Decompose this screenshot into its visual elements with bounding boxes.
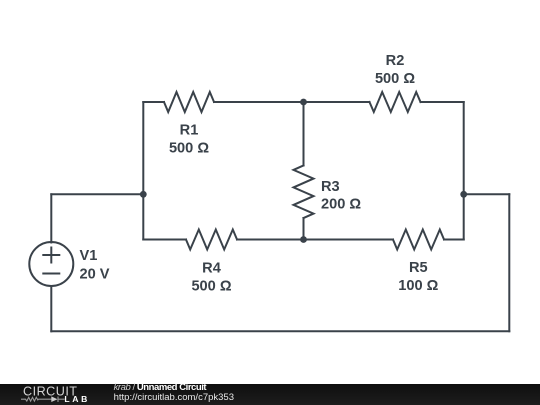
node B junction dot <box>300 99 307 106</box>
wire R1 to node B <box>214 101 304 103</box>
wire V1 bottom lead <box>50 286 52 331</box>
wire R3 bottom lead <box>303 218 305 240</box>
CircuitLab logo diode triangle <box>51 396 57 402</box>
wire R4 to node C <box>237 239 304 241</box>
wire right branch vertical <box>463 102 465 240</box>
svg-text:R1: R1 <box>180 123 199 139</box>
svg-text:500 Ω: 500 Ω <box>375 71 415 87</box>
wire top rail left (node A to R2) <box>143 101 164 103</box>
node D junction dot <box>460 191 467 198</box>
wire left branch vertical <box>142 102 144 240</box>
node C junction dot <box>300 236 307 243</box>
footer caption text <box>114 383 234 403</box>
svg-text:200 Ω: 200 Ω <box>321 197 361 213</box>
resistor R4 <box>186 230 237 250</box>
wire right outer to node D <box>464 193 510 195</box>
resistor R5 <box>393 230 444 250</box>
wire R3 top lead <box>303 102 305 166</box>
CircuitLab logo schematic squiggle (resistor and diode) <box>21 397 65 403</box>
svg-text:R2: R2 <box>386 53 405 69</box>
resistor R2 <box>370 92 421 112</box>
wire bottom rail <box>51 330 509 332</box>
svg-text:500 Ω: 500 Ω <box>191 278 231 294</box>
wire V1 top to node A <box>51 193 143 195</box>
svg-text:R4: R4 <box>202 261 222 277</box>
wire node B to R2 <box>304 101 370 103</box>
wire bottom mid left (node to R4) <box>143 239 186 241</box>
svg-text:20 V: 20 V <box>80 266 110 282</box>
voltage source V1 <box>29 242 73 286</box>
wire R2 to top-right corner <box>421 101 464 103</box>
svg-text:100 Ω: 100 Ω <box>398 278 438 294</box>
svg-text:500 Ω: 500 Ω <box>169 141 209 157</box>
svg-text:R5: R5 <box>409 260 428 276</box>
wire R5 to right branch <box>444 239 464 241</box>
svg-text:LAB: LAB <box>64 394 87 404</box>
footer bar <box>0 384 540 405</box>
node A junction dot <box>140 191 147 198</box>
wire node C to R5 <box>304 239 394 241</box>
wire V1 top lead <box>50 194 52 242</box>
resistor R1 <box>164 92 214 112</box>
svg-text:V1: V1 <box>80 248 98 264</box>
wire right outer vertical <box>508 194 510 331</box>
svg-text:R3: R3 <box>321 179 340 195</box>
resistor R3 <box>294 166 314 219</box>
